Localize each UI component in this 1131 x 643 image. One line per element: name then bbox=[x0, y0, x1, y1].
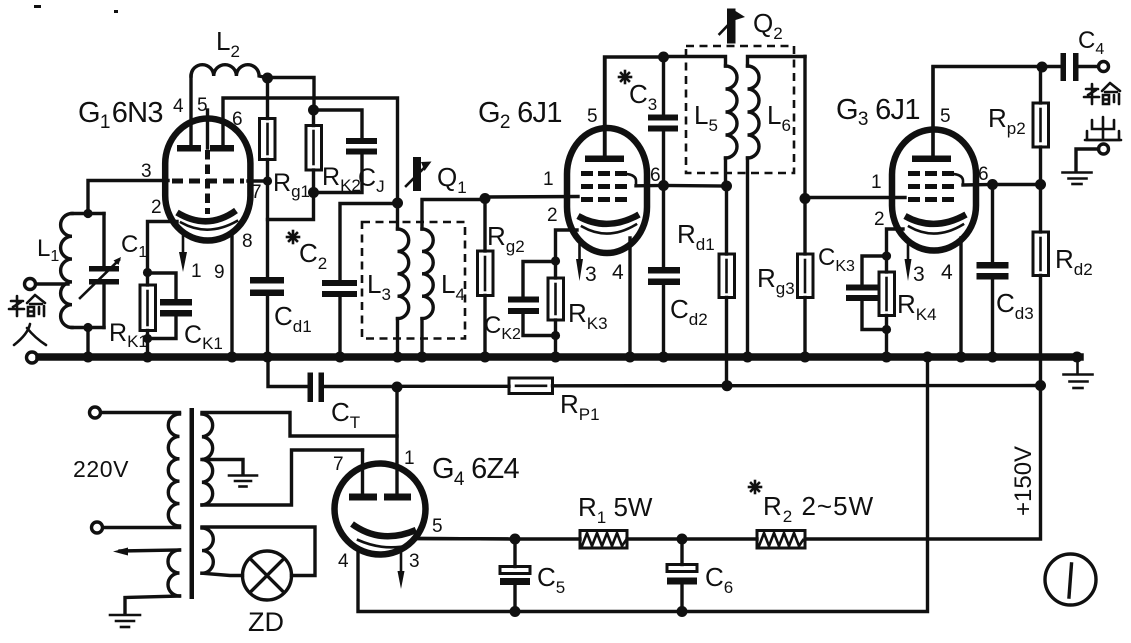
node C6 top bbox=[677, 534, 688, 545]
wire pin6 to Rp2 bottom bbox=[993, 183, 1041, 186]
wire B+ line to Rp1 bbox=[397, 385, 509, 388]
lamp ZD bbox=[243, 551, 292, 600]
svg-text:G3 6J1: G3 6J1 bbox=[836, 94, 920, 130]
wire L1/C1 tank top bbox=[72, 212, 104, 215]
wire R1 to C5 bbox=[515, 537, 580, 540]
node Rg2 top bbox=[480, 193, 491, 204]
G1 grid dashes vertical bbox=[205, 150, 210, 214]
svg-text:1: 1 bbox=[871, 172, 882, 193]
svg-text:2: 2 bbox=[151, 197, 162, 218]
wire R2 to C6 bbox=[682, 537, 757, 540]
wire Rg1 bottom down to Cd1 bbox=[266, 181, 269, 277]
resistor Rg1 bbox=[260, 119, 276, 160]
resistor Rd2 bbox=[1039, 185, 1042, 233]
transformer lamp winding bbox=[202, 528, 213, 573]
svg-text:8: 8 bbox=[242, 231, 253, 252]
node RK2 bottom bbox=[308, 187, 319, 198]
G1 glass foot arc bbox=[181, 221, 237, 230]
node RK1 top bbox=[143, 268, 152, 277]
L2 left lead to plate bbox=[189, 76, 192, 146]
svg-text:2: 2 bbox=[547, 205, 558, 226]
G3 pin6 hook bbox=[954, 174, 963, 185]
resistor R2 bbox=[757, 531, 805, 549]
mains terminal bottom bbox=[92, 522, 103, 533]
wire C5 to G4 pin5 bbox=[415, 537, 515, 541]
transformer tap winding (lower left) bbox=[168, 550, 180, 596]
wire G2 pin2 bbox=[556, 230, 578, 261]
trimmer symbol Q2 bbox=[727, 9, 736, 44]
wire G2 pin4 to bus bbox=[628, 238, 631, 357]
svg-text:3: 3 bbox=[141, 161, 152, 182]
wire lamp winding top bbox=[202, 527, 315, 576]
wire G1 pin2 bbox=[148, 222, 178, 273]
G2 cathode arc bbox=[578, 215, 639, 224]
ground bus right end junction bbox=[1072, 352, 1083, 363]
node C3 top bbox=[658, 52, 669, 63]
svg-text:G2 6J1: G2 6J1 bbox=[478, 97, 562, 133]
G2 pin5 lead bbox=[603, 58, 606, 158]
capacitor CJ bbox=[314, 110, 363, 138]
capacitor Cd2 bbox=[662, 186, 665, 268]
wire G4 pin7 lead bbox=[361, 450, 364, 495]
G2 grid rows bbox=[581, 171, 629, 176]
wire Rd2 bottom through bus to B+ line bbox=[1039, 276, 1042, 386]
wire C3 top to L5 bbox=[664, 57, 726, 67]
G1 cathode arc bbox=[177, 211, 236, 222]
resistor R1 bbox=[580, 531, 627, 549]
node Rg3 top bbox=[800, 193, 811, 204]
wire bottom return line bbox=[358, 357, 928, 612]
svg-text:5: 5 bbox=[587, 106, 598, 127]
wire Rp1 to +150V corner bbox=[553, 384, 1041, 388]
wire tank top to grid line bbox=[88, 181, 168, 214]
wire L6 top down to Rg3 bbox=[803, 57, 806, 199]
node C5 top bbox=[510, 534, 521, 545]
capacitor C1 (variable) bbox=[102, 214, 105, 267]
capacitor CK1 bbox=[148, 273, 177, 299]
wire G1 pin9 to bus bbox=[230, 233, 233, 357]
G3 plate bar bbox=[912, 156, 951, 163]
wire node down to Rg1 bbox=[266, 78, 269, 119]
node tank bottom bbox=[83, 323, 92, 332]
node G4 pin1 / B+ line bbox=[392, 382, 403, 393]
capacitor Cd1 bbox=[250, 277, 284, 284]
node tank top bbox=[83, 209, 92, 218]
resistor Rg3 bbox=[803, 199, 806, 255]
node L2 right bbox=[262, 73, 273, 84]
node G2 pin6 bbox=[658, 180, 669, 191]
capacitor CK2 bbox=[523, 262, 556, 297]
G3 glass foot arc bbox=[909, 225, 963, 234]
label *C2 bbox=[287, 231, 299, 243]
label 输 (input) drawn glyph bbox=[9, 295, 45, 316]
output terminal top bbox=[1099, 62, 1109, 72]
svg-text:ZD: ZD bbox=[248, 607, 284, 637]
figure number 1 (circled) bbox=[1045, 554, 1096, 605]
capacitor C2 bbox=[340, 204, 398, 281]
resistor Rg2 bbox=[483, 199, 486, 252]
G3 cathode arc bbox=[905, 215, 966, 224]
node +150V corner bbox=[1035, 380, 1046, 391]
coil L6 bbox=[748, 57, 806, 67]
svg-text:3: 3 bbox=[409, 551, 420, 572]
wire bus stub to B+ line bbox=[268, 357, 308, 387]
node L3 top bbox=[392, 198, 403, 209]
label 入 (input) drawn glyph bbox=[14, 324, 46, 345]
tube G1 envelope bbox=[165, 119, 250, 241]
node RK4 top bbox=[882, 251, 891, 260]
output terminal bottom bbox=[1099, 144, 1109, 154]
svg-text:4: 4 bbox=[173, 96, 184, 117]
ground (HV tap) bbox=[229, 476, 257, 487]
arrow G3 pin3 cathode bbox=[907, 245, 910, 260]
G4 plate bars bbox=[349, 494, 377, 501]
wire tank bottom to bus bbox=[86, 328, 89, 358]
svg-text:R2 2~5W: R2 2~5W bbox=[763, 491, 874, 526]
svg-text:+150V: +150V bbox=[1010, 446, 1037, 516]
wire output ground bbox=[1076, 149, 1099, 172]
svg-text:G4 6Z4: G4 6Z4 bbox=[432, 453, 520, 490]
wire HV top to G4 pin1 bbox=[202, 413, 397, 437]
wire L6 bottom to bus bbox=[746, 158, 749, 357]
node RK1 bottom bbox=[143, 334, 152, 343]
resistor RK3 bbox=[554, 261, 557, 278]
G1 grid dashes horizontal bbox=[172, 179, 244, 184]
wire lamp winding bottom bbox=[202, 573, 243, 575]
node RK3 bottom bbox=[551, 331, 560, 340]
node bottom line to bus bbox=[922, 352, 933, 363]
wire grid G3 pin1 bbox=[805, 196, 905, 199]
wire G3 plate to top rail bbox=[933, 67, 1042, 159]
wire tank bottom bbox=[72, 326, 104, 329]
svg-text:4: 4 bbox=[338, 551, 349, 572]
wire G4 pin1 lead bbox=[395, 387, 398, 495]
ground (output) bbox=[1063, 173, 1092, 185]
G4 glass foot arc bbox=[358, 540, 410, 547]
G2 pin6 hook bbox=[627, 174, 636, 186]
resistor Rp1 bbox=[509, 378, 553, 394]
label 出 (output) drawn glyph bbox=[1085, 117, 1121, 140]
resistor RK2 bbox=[312, 110, 315, 126]
capacitor C5 (electrolytic) bbox=[513, 539, 516, 567]
wire arrow tap bbox=[120, 550, 180, 551]
G2 glass foot arc bbox=[582, 225, 636, 234]
wire RK2 bottom to Cd1 branch bbox=[268, 193, 314, 220]
svg-text:7: 7 bbox=[333, 454, 344, 475]
node L5 bottom bbox=[721, 181, 732, 192]
svg-text:4: 4 bbox=[941, 261, 953, 284]
svg-text:6: 6 bbox=[232, 109, 243, 130]
wire grid pin7 bbox=[248, 179, 268, 182]
arrow G4 pin3 cathode bbox=[400, 551, 403, 572]
shield box L5 L6 (dashed) bbox=[686, 46, 794, 173]
wire input to L1 bbox=[36, 282, 68, 285]
node Rp2 bottom bbox=[1035, 179, 1046, 190]
G4 cathode arc bbox=[352, 524, 416, 536]
svg-text:1: 1 bbox=[543, 169, 554, 190]
wire grid G2 pin1 bbox=[485, 195, 578, 199]
wire pin6 to L5 bottom bbox=[664, 184, 727, 188]
svg-text:5: 5 bbox=[940, 106, 951, 127]
mains terminal top bbox=[90, 407, 101, 418]
ground bus bbox=[39, 353, 1080, 361]
noise speck top left bbox=[34, 5, 41, 8]
resistor Rp2 bbox=[1039, 67, 1042, 103]
arrow G2 pin3 cathode bbox=[578, 245, 581, 260]
node G3 pin6 bbox=[987, 179, 998, 190]
node C6 bottom bbox=[677, 606, 688, 617]
wire HV tap to ground bbox=[202, 460, 243, 475]
node Rp2 top bbox=[1037, 62, 1048, 73]
svg-text:G16N3: G16N3 bbox=[78, 97, 163, 133]
transformer core bbox=[190, 408, 195, 599]
capacitor C3 bbox=[662, 57, 665, 115]
coil L4 bbox=[422, 200, 485, 230]
coil L3 bbox=[396, 203, 399, 229]
wire G3 pin2 bbox=[887, 229, 904, 256]
shield box L3 L4 (dashed) bbox=[362, 222, 465, 339]
svg-text:R1 5W: R1 5W bbox=[578, 492, 653, 527]
trimmer symbol Q1 bbox=[413, 157, 421, 191]
node RK2 top bbox=[308, 105, 319, 116]
wire C6 to R1 bbox=[627, 537, 682, 540]
svg-text:9: 9 bbox=[214, 262, 225, 283]
capacitor C4 bbox=[1042, 65, 1061, 68]
arrow pin1 cathode bbox=[182, 234, 185, 253]
tube G3 envelope bbox=[892, 130, 976, 251]
G1 plates bbox=[177, 145, 201, 152]
ground (right end of bus) bbox=[1064, 360, 1093, 388]
node RK4 bottom bbox=[882, 325, 891, 334]
wire +150V vertical bbox=[805, 386, 1041, 540]
wire G4 pin5 to C5 bbox=[415, 537, 515, 541]
label *C3 bbox=[619, 71, 631, 83]
transformer primary winding bbox=[101, 411, 180, 414]
node C5 bottom bbox=[510, 606, 521, 617]
svg-text:5: 5 bbox=[432, 516, 443, 537]
wire G3 pin4 to bus bbox=[959, 238, 962, 357]
wire node to RK2 branch bbox=[268, 78, 315, 111]
node RK3 top bbox=[551, 256, 560, 265]
coil L2 bbox=[191, 65, 266, 78]
coil L5 bbox=[726, 66, 738, 158]
capacitor Cd3 bbox=[991, 185, 994, 263]
svg-text:6: 6 bbox=[978, 164, 989, 185]
ground bus left terminal bbox=[27, 352, 38, 363]
capacitor CK3 bbox=[862, 256, 887, 285]
tube G4 envelope bbox=[335, 464, 426, 555]
resistor RK1 bbox=[140, 285, 156, 331]
node Rd1 bottom on B+ line bbox=[722, 380, 733, 391]
tube G2 envelope bbox=[567, 128, 647, 253]
input terminal bbox=[25, 279, 36, 290]
wire tap winding bottom to ground bbox=[125, 596, 180, 614]
coil L1 bbox=[61, 214, 72, 328]
svg-text:2: 2 bbox=[874, 209, 885, 230]
ground (tap winding) bbox=[110, 615, 140, 627]
capacitor CT bbox=[308, 373, 314, 403]
transformer HV secondary bbox=[202, 414, 213, 505]
G2 plate bar bbox=[585, 156, 624, 163]
G1 center stub pin5 bbox=[206, 110, 209, 148]
resistor Rd1 bbox=[725, 186, 728, 254]
G3 pin5 lead bbox=[931, 67, 934, 158]
svg-text:1: 1 bbox=[404, 448, 415, 469]
svg-text:3: 3 bbox=[585, 263, 597, 286]
node Rg1 bottom bbox=[263, 176, 272, 185]
resistor RK4 bbox=[885, 256, 888, 272]
G3 grid rows bbox=[908, 171, 956, 176]
wire HV bottom to G4 pin7 bbox=[202, 450, 363, 505]
svg-text:5: 5 bbox=[197, 95, 208, 116]
capacitor C6 (electrolytic) bbox=[680, 539, 683, 565]
svg-text:4: 4 bbox=[612, 261, 624, 284]
wire G2 pin5 plate to C3 top bbox=[605, 57, 664, 159]
svg-text:220V: 220V bbox=[73, 456, 129, 482]
label *R2 2~5W bbox=[749, 481, 761, 493]
wire G1 plate pin6 line bbox=[223, 98, 398, 203]
svg-text:1: 1 bbox=[191, 261, 202, 282]
svg-text:3: 3 bbox=[913, 263, 925, 286]
label 输 (output) drawn glyph bbox=[1084, 83, 1120, 104]
